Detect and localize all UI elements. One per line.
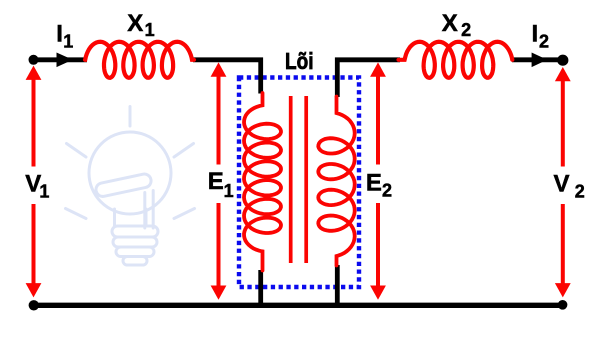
label background V1 — [20, 167, 51, 205]
svg-text:E: E — [208, 168, 224, 195]
svg-text:E: E — [366, 170, 382, 197]
svg-text:X: X — [442, 10, 458, 37]
svg-text:2: 2 — [461, 20, 471, 40]
svg-text:2: 2 — [382, 181, 392, 201]
label background E1 — [204, 165, 236, 204]
terminal node bottom-right — [558, 300, 568, 310]
svg-text:1: 1 — [39, 182, 49, 202]
wire: right winding bottom stub — [335, 265, 340, 305]
terminal node bottom-left — [29, 300, 39, 310]
voltage arrow E1 — [217, 75, 221, 288]
terminal node top-left — [29, 55, 39, 65]
watermark light bulb logo — [66, 107, 195, 266]
current arrow I1 — [57, 53, 73, 68]
voltage arrow E2 — [376, 75, 380, 288]
voltage arrow V1 — [32, 78, 36, 285]
transformer core — [291, 96, 307, 263]
wire: X2 to right terminal — [512, 57, 563, 62]
blue dotted boundary box — [239, 78, 359, 288]
svg-text:Lõi: Lõi — [285, 48, 314, 74]
svg-text:I: I — [56, 20, 63, 47]
label background E2 — [362, 165, 394, 204]
svg-text:1: 1 — [224, 181, 234, 201]
terminal node top-right — [557, 55, 568, 66]
label background V2 — [549, 167, 589, 205]
svg-text:1: 1 — [145, 20, 155, 40]
svg-text:2: 2 — [539, 31, 549, 51]
svg-text:V: V — [554, 170, 570, 197]
wire: bottom rail — [34, 303, 563, 308]
current arrow I2 — [532, 53, 548, 68]
svg-text:1: 1 — [63, 31, 73, 51]
secondary winding E2 — [318, 97, 354, 266]
svg-text:2: 2 — [575, 182, 585, 202]
primary winding E1 — [244, 93, 281, 271]
svg-text:I: I — [532, 20, 539, 47]
wire: top left rail — [34, 60, 564, 305]
inductor X1 — [85, 42, 194, 78]
wire: rail X1 to left winding corner — [193, 60, 261, 94]
wire: right winding top corner rail — [337, 60, 400, 97]
voltage arrow V2 — [561, 79, 565, 285]
inductor X2 — [399, 42, 513, 78]
svg-text:X: X — [127, 10, 143, 37]
wire: left winding bottom stub — [258, 270, 263, 305]
